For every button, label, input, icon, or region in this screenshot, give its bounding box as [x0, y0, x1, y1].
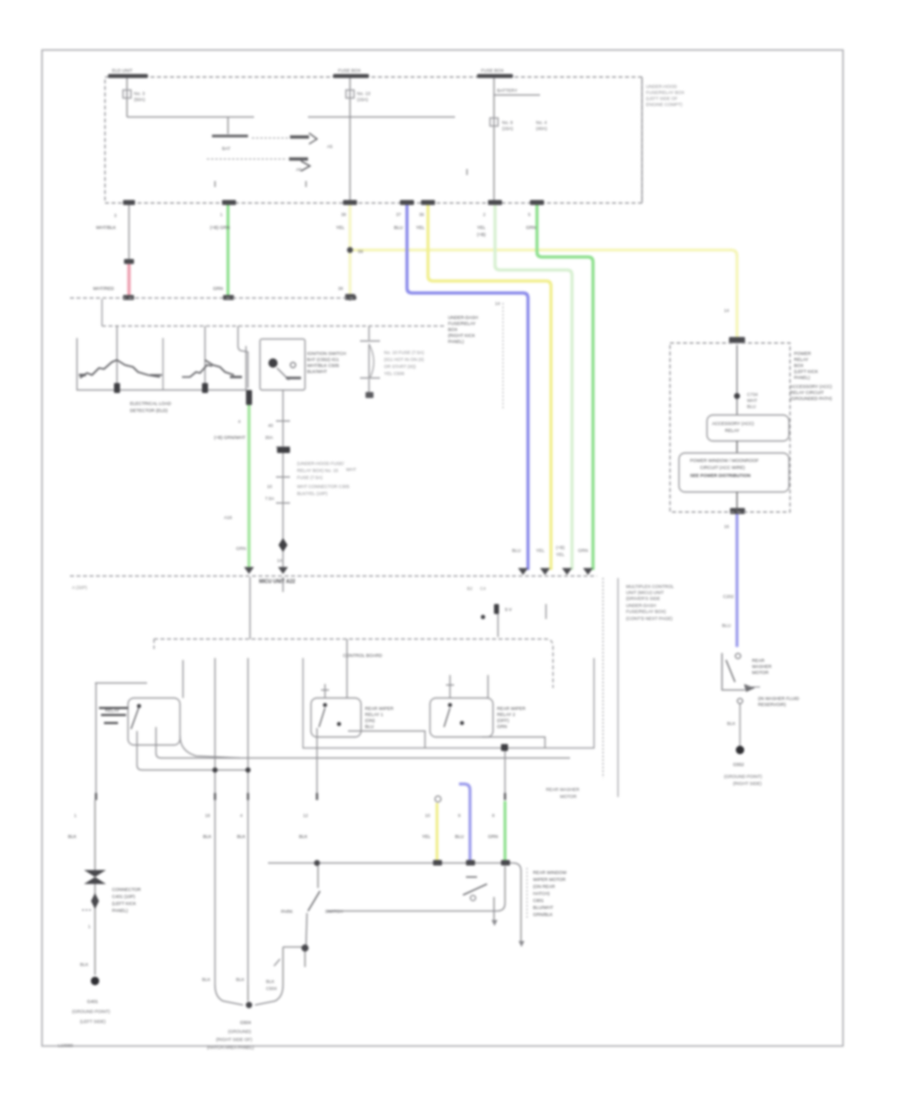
svg-text:CIRCUIT (ACC WIRE): CIRCUIT (ACC WIRE) — [700, 465, 745, 470]
svg-text:FUSE BOX: FUSE BOX — [338, 68, 361, 73]
svg-text:MOTOR: MOTOR — [752, 670, 769, 675]
svg-text:(DRIVER'S SIDE: (DRIVER'S SIDE — [626, 596, 660, 601]
svg-text:RELAY 2: RELAY 2 — [497, 712, 516, 717]
svg-text:YEL: YEL — [336, 225, 345, 230]
svg-text:BLK/YEL (10P): BLK/YEL (10P) — [297, 491, 328, 496]
svg-text:ENGINE COMPT): ENGINE COMPT) — [646, 102, 683, 107]
svg-text:(+B): (+B) — [477, 232, 486, 237]
svg-text:A (32P): A (32P) — [72, 585, 88, 590]
svg-text:OR START (III)): OR START (III)) — [384, 364, 416, 369]
svg-text:BLK: BLK — [299, 834, 308, 839]
svg-text:No. 4: No. 4 — [536, 120, 547, 125]
svg-text:GRN: GRN — [213, 286, 223, 291]
svg-text:38: 38 — [341, 212, 347, 217]
svg-text:GRN: GRN — [488, 834, 498, 839]
svg-text:WHT/RED: WHT/RED — [93, 286, 115, 291]
svg-text:BLK: BLK — [80, 962, 89, 967]
svg-text:8: 8 — [492, 813, 495, 818]
svg-text:BLK: BLK — [236, 977, 245, 982]
svg-text:(+B) GRN: (+B) GRN — [210, 225, 230, 230]
svg-text:FUSE/RELAY: FUSE/RELAY — [448, 321, 476, 326]
svg-text:(HATCH AREA PANEL): (HATCH AREA PANEL) — [207, 1045, 254, 1050]
svg-text:REAR: REAR — [752, 658, 765, 663]
svg-text:(LEFT SIDE): (LEFT SIDE) — [80, 1019, 106, 1024]
svg-text:(15A): (15A) — [502, 126, 514, 131]
svg-text:BOX: BOX — [448, 327, 458, 332]
svg-text:PANEL): PANEL) — [448, 339, 464, 344]
svg-text:BLK/WHT: BLK/WHT — [307, 369, 327, 374]
svg-text:UNDER-DASH: UNDER-DASH — [626, 603, 656, 608]
svg-text:1: 1 — [220, 212, 223, 217]
svg-text:ACCESSORY (ACC): ACCESSORY (ACC) — [712, 421, 754, 426]
svg-text:YEL: YEL — [477, 225, 486, 230]
svg-text:(LEFT KICK: (LEFT KICK — [794, 369, 818, 374]
svg-text:WIPER MOTOR: WIPER MOTOR — [533, 877, 566, 882]
svg-text:14: 14 — [724, 308, 730, 313]
svg-text:BLK: BLK — [68, 834, 77, 839]
svg-text:RELAY: RELAY — [105, 708, 119, 713]
svg-text:YEL C506: YEL C506 — [384, 371, 405, 376]
svg-text:(40A): (40A) — [536, 126, 548, 131]
svg-text:10: 10 — [267, 484, 273, 489]
svg-text:(OFF): (OFF) — [497, 718, 509, 723]
svg-text:(CONT'D NEXT PAGE): (CONT'D NEXT PAGE) — [626, 616, 673, 621]
svg-text:SWITCH: SWITCH — [325, 909, 343, 914]
svg-text:HATCH): HATCH) — [533, 891, 550, 896]
svg-text:No. 10 FUSE (7.5A): No. 10 FUSE (7.5A) — [384, 350, 425, 355]
svg-text:4: 4 — [240, 813, 243, 818]
svg-text:(RIGHT KICK: (RIGHT KICK — [448, 333, 475, 338]
svg-text:59: 59 — [358, 249, 364, 254]
svg-text:UNDER-HOOD: UNDER-HOOD — [646, 84, 678, 89]
svg-text:MOTOR: MOTOR — [560, 794, 577, 799]
svg-text:RELAY 1: RELAY 1 — [365, 712, 384, 717]
svg-text:FUSE/RELAY BOX: FUSE/RELAY BOX — [646, 90, 684, 95]
svg-text:C401 (10P): C401 (10P) — [112, 894, 136, 899]
svg-text:PARK: PARK — [281, 909, 293, 914]
svg-text:(ON): (ON) — [365, 718, 375, 723]
svg-text:GRN: GRN — [578, 548, 588, 553]
svg-text:BLU: BLU — [747, 404, 756, 409]
svg-text:(RIGHT SIDE OF): (RIGHT SIDE OF) — [216, 1037, 253, 1042]
svg-text:(IG1 HOT IN ON (II): (IG1 HOT IN ON (II) — [384, 357, 424, 362]
svg-text:C202: C202 — [723, 594, 734, 599]
svg-text:(+B) GRN/WHT: (+B) GRN/WHT — [214, 435, 246, 440]
svg-text:YEL: YEL — [416, 225, 425, 230]
svg-text:BLU: BLU — [455, 834, 464, 839]
svg-text:(GROUNDED PATH): (GROUNDED PATH) — [790, 396, 832, 401]
svg-text:BLU/WHT: BLU/WHT — [533, 905, 554, 910]
svg-text:REAR WINDOW: REAR WINDOW — [533, 870, 567, 875]
svg-text:BLU: BLU — [512, 548, 521, 553]
svg-text:(+B): (+B) — [556, 545, 565, 550]
svg-text:WASHER: WASHER — [752, 664, 772, 669]
svg-text:G504: G504 — [240, 1020, 252, 1025]
svg-text:RESERVOIR): RESERVOIR) — [758, 702, 786, 707]
svg-text:12: 12 — [303, 813, 309, 818]
svg-text:DETECTOR (ELD): DETECTOR (ELD) — [130, 408, 168, 413]
svg-text:BATTERY: BATTERY — [497, 88, 517, 93]
svg-text:1: 1 — [74, 813, 77, 818]
svg-text:GRN: GRN — [526, 225, 536, 230]
svg-text:5: 5 — [528, 212, 531, 217]
svg-text:C734: C734 — [747, 392, 758, 397]
svg-text:14: 14 — [495, 301, 501, 306]
svg-text:(15A): (15A) — [357, 97, 369, 102]
svg-text:A5: A5 — [327, 144, 333, 149]
svg-text:ACCESSORY (ACC): ACCESSORY (ACC) — [790, 384, 832, 389]
svg-text:No. 13: No. 13 — [357, 91, 371, 96]
svg-text:ELD UNIT: ELD UNIT — [112, 68, 133, 73]
svg-text:36: 36 — [419, 212, 425, 217]
svg-text:YEL: YEL — [422, 834, 431, 839]
svg-text:GRN: GRN — [236, 546, 246, 551]
svg-text:G401: G401 — [87, 999, 99, 1004]
svg-text:C504: C504 — [266, 986, 277, 991]
svg-text:BAT (C552) IG1: BAT (C552) IG1 — [307, 357, 339, 362]
svg-text:(UNDER-HOOD FUSE/: (UNDER-HOOD FUSE/ — [297, 461, 345, 466]
svg-text:UNDER-DASH: UNDER-DASH — [448, 315, 478, 320]
svg-text:BLU: BLU — [394, 225, 403, 230]
svg-text:C801: C801 — [533, 898, 544, 903]
svg-text:(ON REAR: (ON REAR — [533, 884, 556, 889]
svg-text:WHT/BLK C505: WHT/BLK C505 — [307, 363, 340, 368]
svg-text:SEE POWER DISTRIBUTION: SEE POWER DISTRIBUTION — [690, 473, 751, 478]
svg-text:40: 40 — [268, 423, 274, 428]
svg-text:L10080: L10080 — [58, 1043, 74, 1048]
svg-text:(LEFT SIDE OF: (LEFT SIDE OF — [646, 96, 678, 101]
svg-text:YEL: YEL — [536, 548, 545, 553]
svg-text:1: 1 — [88, 924, 91, 929]
svg-text:(RIGHT SIDE): (RIGHT SIDE) — [733, 781, 762, 786]
svg-text:30A: 30A — [265, 435, 273, 440]
svg-text:PANEL): PANEL) — [794, 375, 810, 380]
svg-text:ELECTRICAL LOAD: ELECTRICAL LOAD — [130, 401, 172, 406]
svg-text:FUSE (7.5A): FUSE (7.5A) — [297, 475, 323, 480]
svg-text:WHT: WHT — [346, 467, 356, 472]
svg-text:RELAY: RELAY — [794, 357, 808, 362]
svg-text:RELAY: RELAY — [725, 428, 739, 433]
svg-text:MICU UNIT A22: MICU UNIT A22 — [259, 579, 295, 585]
svg-text:IGNITION SWITCH: IGNITION SWITCH — [307, 351, 346, 356]
svg-text:5 V: 5 V — [505, 607, 512, 612]
svg-text:BLK: BLK — [202, 977, 211, 982]
svg-text:C4: C4 — [480, 586, 486, 591]
svg-text:10: 10 — [425, 813, 431, 818]
svg-text:No. 3: No. 3 — [134, 91, 145, 96]
svg-text:WHT: WHT — [747, 398, 757, 403]
svg-text:BLK: BLK — [727, 721, 736, 726]
svg-text:FUSE/RELAY BOX): FUSE/RELAY BOX) — [626, 609, 666, 614]
svg-text:4: 4 — [238, 419, 241, 424]
svg-text:WHT CONNECTOR C305: WHT CONNECTOR C305 — [297, 484, 350, 489]
svg-text:G552: G552 — [733, 762, 745, 767]
svg-text:A16: A16 — [224, 515, 233, 520]
svg-text:POWER WINDOW / MOONROOF: POWER WINDOW / MOONROOF — [690, 458, 759, 463]
svg-text:GRN: GRN — [497, 724, 507, 729]
svg-text:9: 9 — [458, 813, 461, 818]
svg-text:BLK: BLK — [237, 834, 246, 839]
svg-text:(LEFT KICK: (LEFT KICK — [112, 901, 136, 906]
svg-text:A6: A6 — [296, 167, 302, 172]
svg-text:37: 37 — [396, 212, 402, 217]
svg-text:CONNECTOR: CONNECTOR — [112, 887, 142, 892]
svg-text:RELAY CIRCUIT: RELAY CIRCUIT — [790, 390, 824, 395]
svg-text:(50A): (50A) — [134, 97, 146, 102]
svg-text:YEL: YEL — [556, 552, 565, 557]
svg-text:WHT/BLK: WHT/BLK — [96, 225, 116, 230]
svg-text:14: 14 — [277, 558, 283, 563]
svg-text:7.5A: 7.5A — [265, 496, 274, 501]
svg-text:GRN/BLK: GRN/BLK — [533, 912, 553, 917]
svg-text:RELAY BOX) No. 15: RELAY BOX) No. 15 — [297, 468, 339, 473]
svg-text:UNIT (MICU) UNIT: UNIT (MICU) UNIT — [626, 590, 664, 595]
svg-text:(GROUND POINT): (GROUND POINT) — [724, 774, 762, 779]
svg-text:No. 9: No. 9 — [502, 120, 513, 125]
svg-text:16: 16 — [724, 524, 730, 529]
svg-text:CONTROL BOARD: CONTROL BOARD — [343, 653, 383, 658]
svg-text:(IN WASHER FLUID: (IN WASHER FLUID — [758, 696, 800, 701]
svg-text:2: 2 — [483, 212, 486, 217]
svg-text:REAR WIPER: REAR WIPER — [365, 706, 394, 711]
svg-text:18: 18 — [205, 813, 211, 818]
svg-text:PANEL): PANEL) — [112, 908, 128, 913]
svg-text:MULTIPLEX CONTROL: MULTIPLEX CONTROL — [626, 584, 674, 589]
svg-text:REAR WIPER: REAR WIPER — [497, 706, 526, 711]
svg-text:(GROUND): (GROUND) — [228, 1029, 251, 1034]
svg-text:38: 38 — [338, 286, 344, 291]
svg-text:B2: B2 — [467, 586, 473, 591]
svg-text:BAT: BAT — [222, 146, 231, 151]
svg-text:BLK: BLK — [203, 834, 212, 839]
svg-text:BOX: BOX — [794, 363, 804, 368]
svg-text:FUSE BOX: FUSE BOX — [481, 68, 504, 73]
svg-text:POWER: POWER — [794, 351, 812, 356]
svg-text:REAR WASHER: REAR WASHER — [546, 787, 580, 792]
svg-text:BLK: BLK — [266, 979, 275, 984]
svg-text:3: 3 — [114, 213, 117, 218]
svg-text:BLU: BLU — [365, 724, 374, 729]
svg-text:BLU: BLU — [722, 623, 731, 628]
svg-text:(GROUND POINT): (GROUND POINT) — [72, 1009, 110, 1014]
